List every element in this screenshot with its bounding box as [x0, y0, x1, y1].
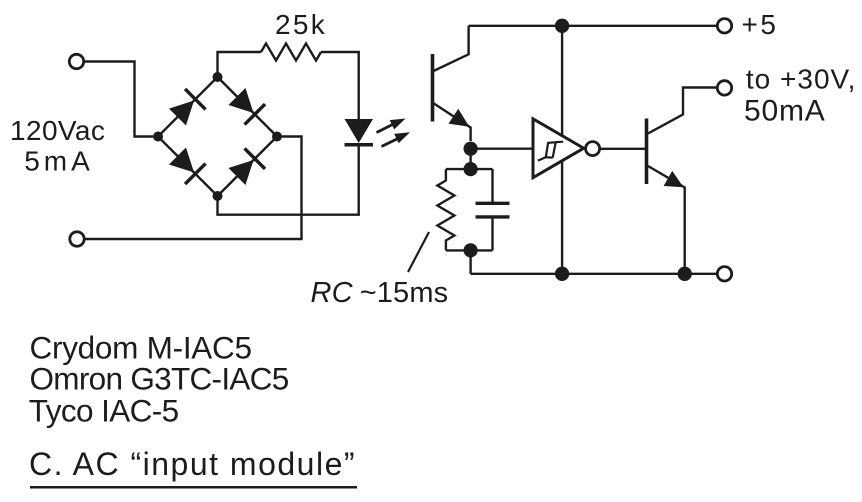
node RC top junction — [464, 162, 478, 176]
svg-text:RC~15ms: RC~15ms — [311, 277, 449, 309]
RC network bottom bus — [446, 249, 493, 251]
terminal T1 (AC input top) — [69, 54, 83, 68]
svg-text:5mA: 5mA — [24, 146, 94, 177]
wire LED cathode to bridge bottom — [218, 145, 359, 215]
bridge edge T-R wire — [218, 77, 278, 137]
wire T1 to bridge left node — [84, 62, 153, 137]
node left of bridge — [153, 132, 163, 142]
bridge edge L-B wire — [158, 137, 218, 197]
node RC bottom junction — [464, 243, 478, 257]
svg-text:120Vac: 120Vac — [10, 115, 105, 146]
transistor Q2 bar — [645, 119, 649, 185]
wire junction to schmitt input — [471, 147, 533, 149]
junction bottom rail supply — [555, 267, 569, 281]
Q1 emitter wire with arrow — [434, 103, 471, 141]
bridge edge B-R wire — [218, 137, 278, 197]
wire RC bottom to ground rail — [469, 250, 471, 273]
svg-text:C. AC “input module”: C. AC “input module” — [29, 446, 356, 482]
resistor R2 (vertical) — [437, 169, 454, 250]
LED emission arrow 2 — [382, 132, 411, 146]
diode D1 (left to top) — [169, 89, 206, 126]
bridge edge L-T wire — [158, 77, 218, 137]
junction top rail — [555, 19, 569, 33]
svg-text:25k: 25k — [275, 9, 327, 40]
top rail +5 — [469, 25, 717, 27]
terminal bottom right — [717, 267, 731, 281]
svg-text:to +30V,: to +30V, — [746, 64, 857, 95]
diode D4 (bottom to right) — [228, 148, 265, 185]
svg-text:50mA: 50mA — [744, 95, 826, 128]
capacitor C1 — [476, 169, 510, 250]
svg-text:+5: +5 — [742, 9, 779, 40]
Q1 collector wire to +5 rail — [434, 26, 469, 71]
terminal T2 (AC input bottom) — [70, 232, 84, 246]
node top of bridge — [213, 72, 223, 82]
Q2 emitter wire with arrow — [648, 166, 685, 274]
wire bridge right node to terminal T2 — [86, 137, 302, 240]
terminal +5 — [717, 19, 731, 33]
node right of bridge — [272, 132, 282, 142]
wire between junctions — [469, 149, 471, 169]
caption underline — [30, 486, 357, 489]
diode D3 (left to bottom) — [169, 147, 206, 184]
bottom rail — [471, 273, 717, 275]
wire resistor to LED anode — [321, 52, 359, 119]
diode D2 (top to right) — [228, 88, 265, 125]
resistor R1 25k — [261, 44, 321, 61]
node bottom of bridge — [213, 191, 223, 201]
wire bridge top to resistor — [218, 52, 262, 77]
junction bottom rail emitter — [678, 267, 692, 281]
LED D5 — [345, 119, 374, 145]
schmitt trigger U1 — [533, 119, 600, 178]
pointer line for RC label — [408, 232, 429, 272]
phototransistor Q1 bar — [431, 54, 435, 122]
LED emission arrow 1 — [377, 119, 406, 133]
RC network top bus — [446, 168, 493, 170]
svg-text:Tyco IAC-5: Tyco IAC-5 — [29, 393, 179, 429]
wire schmitt output to Q2 base — [600, 148, 645, 150]
svg-text:Omron G3TC-IAC5: Omron G3TC-IAC5 — [30, 361, 289, 397]
vertical supply wire through schmitt — [561, 26, 563, 274]
node Q1 emitter junction — [464, 142, 478, 156]
terminal to +30V — [717, 81, 731, 95]
Q2 collector wire to +30V terminal — [648, 88, 717, 134]
